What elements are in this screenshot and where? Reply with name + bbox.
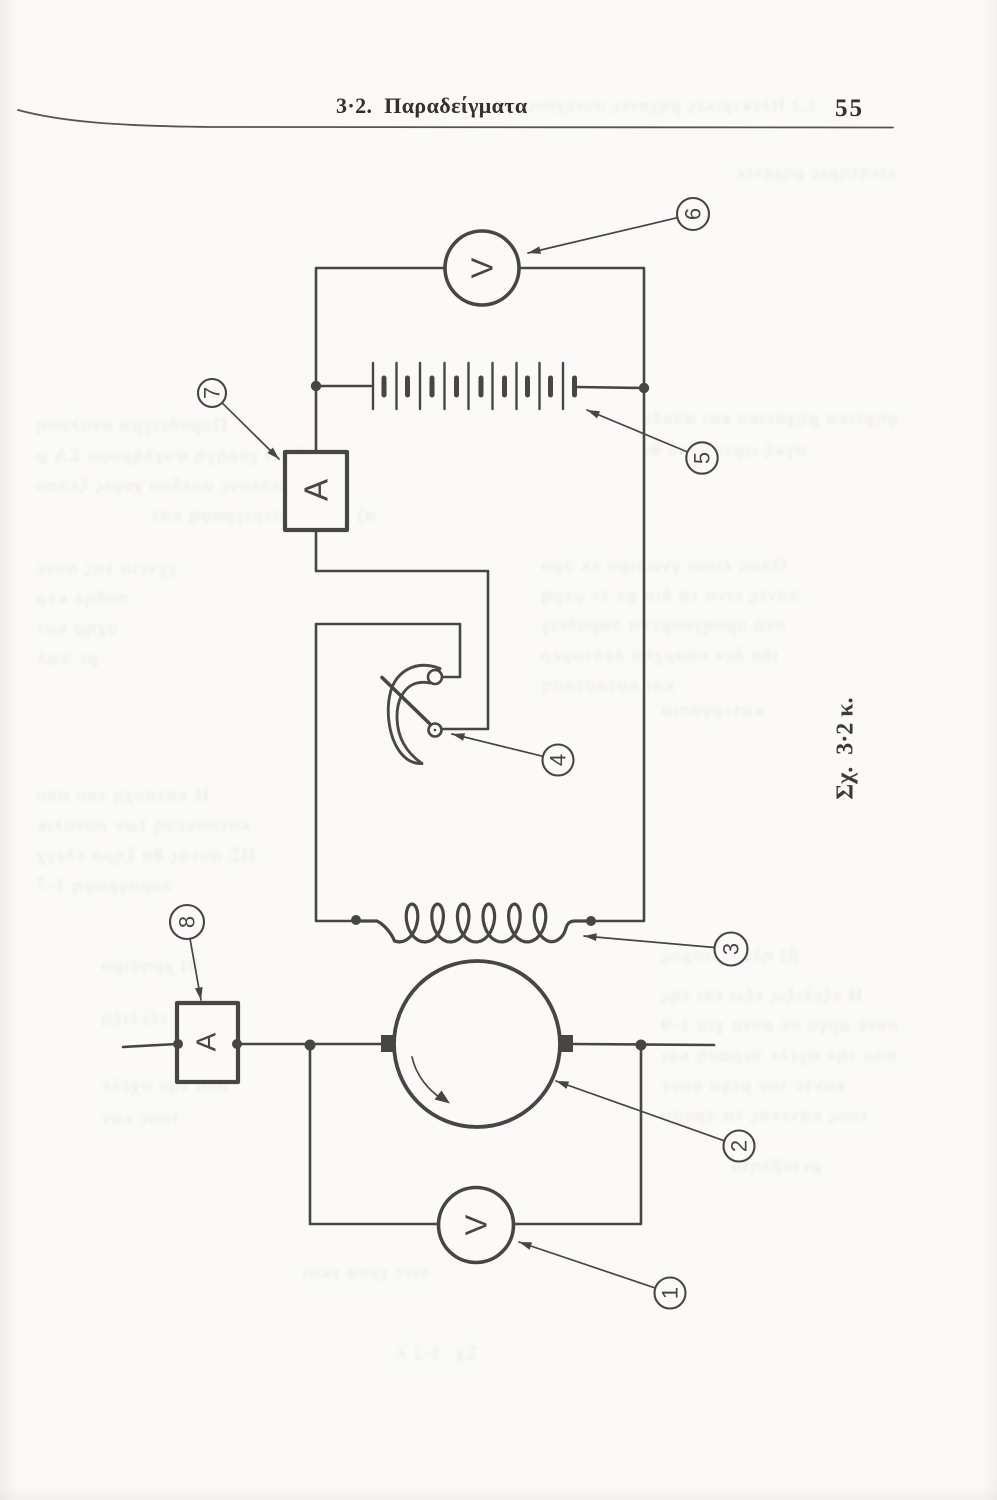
label circle 7 (198, 379, 226, 407)
voltmeter V1 (439, 1188, 514, 1263)
wire left external lead (123, 1044, 177, 1047)
wire switch upper contact to coil (316, 624, 460, 921)
label 7 leader arrow (222, 403, 282, 462)
svg-text:4: 4 (546, 754, 571, 766)
voltmeter V6 (445, 231, 519, 305)
ammeter A8 (177, 1003, 238, 1082)
svg-text:A: A (298, 479, 335, 501)
ammeter A7 (285, 452, 347, 530)
label circle 4 (543, 745, 574, 776)
label circle 6 (677, 198, 709, 230)
wire bottom loop left (310, 1045, 438, 1224)
inductor L3 (356, 904, 591, 942)
wire right vertical down to coil (592, 388, 644, 921)
node coil right (586, 916, 596, 926)
node right battery junction (639, 383, 649, 393)
wire top-right: voltmeter V6 to right vertical (519, 268, 644, 388)
header title (336, 93, 528, 119)
faint bleed-through from reverse page (decorative) (0, 0, 997, 1)
page number 55 (835, 95, 864, 123)
header rule (18, 110, 893, 128)
figure caption rotated (833, 693, 860, 805)
svg-text:2: 2 (727, 1140, 752, 1152)
svg-text:7: 7 (200, 387, 225, 399)
node left battery junction (311, 381, 321, 391)
switch S4 (382, 665, 442, 763)
node bottom-right junction (636, 1040, 647, 1051)
svg-text:1: 1 (658, 1287, 683, 1299)
node A8 left (173, 1039, 183, 1049)
wire top-left: voltmeter V6 to left vertical (316, 268, 445, 386)
svg-text:V: V (459, 1214, 494, 1235)
label circle 8 (170, 905, 204, 939)
svg-text:6: 6 (681, 208, 706, 220)
wire motor to right lead (573, 1044, 714, 1045)
wire A8 to motor (238, 1043, 394, 1046)
svg-text:A: A (191, 1032, 222, 1051)
label circle 1 (655, 1278, 686, 1309)
node A8 right (232, 1039, 242, 1049)
node coil left (351, 915, 361, 925)
label circle 2 (724, 1131, 755, 1162)
wire bottom loop right (514, 1046, 641, 1224)
motor M2 (381, 961, 573, 1127)
battery B5 (316, 363, 644, 409)
label 5 leader arrow (585, 406, 687, 452)
wire A7 to switch lower contact (316, 530, 488, 729)
label 8 leader arrow (190, 939, 205, 1001)
svg-text:3: 3 (719, 943, 744, 955)
label circle 5 (686, 442, 717, 473)
wire node to ammeter A7 (315, 386, 318, 452)
svg-text:8: 8 (175, 916, 200, 928)
label 6 leader arrow (527, 218, 677, 257)
svg-text:5: 5 (690, 452, 715, 464)
label circle 3 (715, 933, 748, 966)
label 3 leader arrow (584, 932, 715, 947)
svg-text:V: V (465, 257, 500, 278)
node bottom-left junction (305, 1040, 316, 1051)
label 2 leader arrow (555, 1077, 725, 1140)
label 1 leader arrow (518, 1238, 657, 1288)
label 4 leader arrow (451, 730, 543, 756)
